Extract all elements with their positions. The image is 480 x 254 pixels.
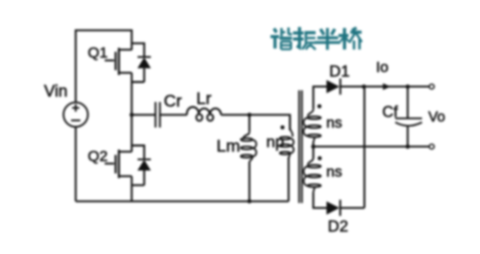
label ns upper	[326, 115, 342, 132]
svg-text:Lm: Lm	[217, 137, 241, 156]
wire: upper ns bottom to center tap	[312, 143, 314, 147]
node: half-bridge midpoint	[130, 113, 134, 117]
polarity dot ns upper	[317, 104, 321, 108]
svg-text:Cf: Cf	[382, 104, 398, 121]
node: Cf top junction	[406, 85, 410, 89]
node: Cf bottom junction	[406, 145, 410, 149]
label ns lower	[326, 163, 342, 180]
wire: midpoint to Cr	[132, 114, 156, 116]
label Lm	[217, 137, 241, 156]
char 谐	[271, 28, 293, 50]
inductor Lm	[241, 132, 257, 162]
svg-text:np: np	[266, 134, 284, 151]
svg-text:Q1: Q1	[88, 45, 108, 62]
char 桥	[339, 28, 362, 50]
wire: left rail below Vin to bottom rail	[75, 127, 77, 202]
label Io	[376, 59, 389, 76]
terminal: output positive	[429, 84, 434, 89]
svg-text:Io: Io	[376, 59, 389, 76]
polarity dot np	[281, 125, 285, 129]
svg-text:Q2: Q2	[88, 148, 108, 165]
node: D1 output junction	[362, 85, 366, 89]
polarity dot ns lower	[318, 156, 322, 160]
wire: Q1 source down to midpoint node and to Q2 drain	[131, 73, 133, 152]
svg-text:Vo: Vo	[428, 110, 445, 126]
label Q1	[88, 45, 108, 62]
wire: np bottom to bottom rail	[288, 157, 290, 201]
diode D2	[327, 200, 341, 216]
capacitor Cr	[156, 102, 160, 128]
label Vo	[428, 110, 445, 126]
label Cr	[164, 92, 182, 111]
svg-text:ns: ns	[326, 163, 342, 180]
wire: top rail from left rail to Q1 drain	[76, 30, 132, 102]
svg-text:Vin: Vin	[44, 83, 68, 101]
node: center tap	[311, 145, 315, 149]
transformer secondary winding ns lower	[304, 158, 321, 192]
wire: D1 cathode to output node	[340, 86, 431, 88]
transformer secondary winding ns upper	[304, 109, 321, 142]
svg-text:D2: D2	[328, 219, 349, 236]
label np	[266, 134, 284, 151]
wire: center tap return rail	[313, 146, 431, 148]
wire: upper ns top to D1 anode	[313, 87, 326, 110]
capacitor Cf	[395, 87, 422, 147]
svg-text:D1: D1	[329, 63, 350, 80]
wire: Lr to np winding top	[221, 115, 290, 131]
char 振	[293, 27, 316, 50]
label D1	[329, 63, 350, 80]
label Q2	[88, 148, 108, 165]
wire: D2 cathode to right vertical	[340, 207, 364, 209]
voltage source Vin	[63, 102, 87, 126]
svg-text:Cr: Cr	[164, 92, 182, 111]
label Cf	[382, 104, 398, 121]
transformer core	[299, 90, 302, 203]
node: Lm top junction	[247, 113, 251, 117]
body diode of Q1	[132, 43, 151, 82]
mosfet Q1	[105, 48, 132, 75]
svg-text:Lr: Lr	[196, 89, 211, 108]
label Vin	[44, 83, 68, 101]
title 谐振半桥 (drawn strokes, teal)	[271, 27, 362, 50]
label Lr	[196, 89, 211, 108]
terminal: output negative	[429, 144, 434, 149]
mosfet Q2	[105, 150, 132, 179]
inductor Lr	[187, 107, 221, 121]
body diode of Q2	[132, 146, 151, 186]
diode D1	[327, 78, 341, 94]
wire: Q2 source to bottom rail	[131, 176, 133, 201]
svg-text:ns: ns	[326, 115, 342, 132]
current arrow Io	[383, 83, 391, 90]
inductor Lm branch wires	[248, 115, 250, 202]
wire: bottom rail	[76, 200, 289, 202]
wire: Cr to Lr	[160, 114, 187, 116]
transformer primary winding np	[280, 116, 294, 159]
label D2	[328, 219, 349, 236]
char 半	[315, 28, 341, 50]
node: Lm bottom junction	[247, 199, 251, 203]
wire: right vertical from D1 node to D2 cathode	[363, 87, 365, 208]
wire: center tap to lower ns and lower ns to D2	[313, 147, 326, 208]
